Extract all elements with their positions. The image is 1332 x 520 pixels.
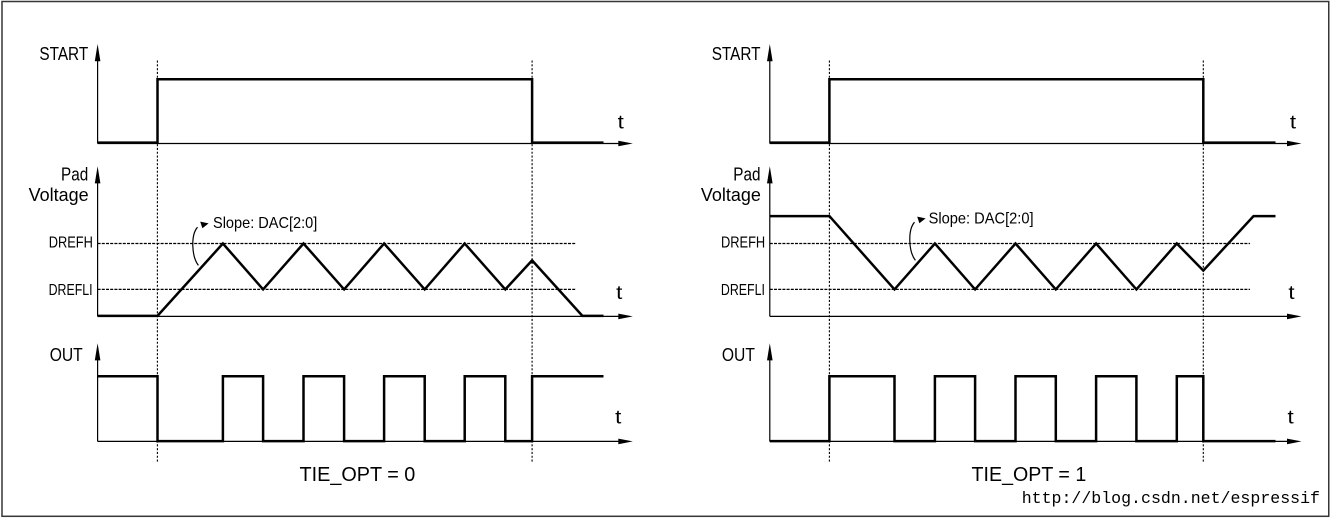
svg-text:t: t xyxy=(618,112,625,133)
dashed timing line T1 left xyxy=(156,61,158,463)
svg-text:t: t xyxy=(1288,408,1295,429)
dashed timing line T2 right xyxy=(1202,61,1204,463)
svg-text:START: START xyxy=(39,44,88,64)
svg-text:http://blog.csdn.net/espressif: http://blog.csdn.net/espressif xyxy=(1022,489,1320,508)
START waveform right xyxy=(770,79,1276,142)
Pad Voltage waveform right xyxy=(770,216,1276,289)
START vertical axis right xyxy=(767,44,773,144)
svg-text:t: t xyxy=(615,408,622,429)
svg-text:Voltage: Voltage xyxy=(701,185,761,205)
START time axis left xyxy=(98,141,633,147)
Pad Voltage vertical axis right xyxy=(767,166,773,316)
svg-text:OUT: OUT xyxy=(722,345,755,365)
OUT waveform right xyxy=(770,376,1276,441)
annotation curved arrow right xyxy=(910,217,926,261)
Pad Voltage vertical axis left xyxy=(95,166,101,316)
svg-text:t: t xyxy=(1288,283,1295,304)
OUT waveform left xyxy=(98,376,604,441)
svg-text:OUT: OUT xyxy=(50,345,83,365)
svg-text:TIE_OPT = 1: TIE_OPT = 1 xyxy=(972,464,1087,486)
svg-text:DREFH: DREFH xyxy=(721,234,765,251)
START time axis right xyxy=(770,141,1302,147)
OUT vertical axis right xyxy=(767,343,773,441)
svg-text:Pad: Pad xyxy=(61,165,88,185)
svg-text:DREFLI: DREFLI xyxy=(721,282,765,299)
dashed timing line T2 left xyxy=(531,61,533,463)
dashed timing line T1 right xyxy=(828,61,830,463)
svg-text:TIE_OPT = 0: TIE_OPT = 0 xyxy=(300,464,416,486)
START waveform left xyxy=(98,79,604,142)
DREFL threshold dashed line right xyxy=(770,288,1250,290)
svg-text:START: START xyxy=(712,44,761,64)
svg-text:Slope: DAC[2:0]: Slope: DAC[2:0] xyxy=(929,211,1034,228)
svg-text:Slope: DAC[2:0]: Slope: DAC[2:0] xyxy=(213,215,317,232)
Pad Voltage waveform left xyxy=(98,244,604,316)
Pad Voltage time axis left xyxy=(98,314,633,320)
OUT time axis left xyxy=(98,439,633,445)
Pad Voltage time axis right xyxy=(770,314,1302,320)
svg-text:DREFLI: DREFLI xyxy=(49,282,93,299)
svg-text:t: t xyxy=(616,283,623,304)
DREFH threshold dashed line left xyxy=(98,243,577,245)
svg-text:Pad: Pad xyxy=(733,165,760,185)
DREFL threshold dashed line left xyxy=(98,288,577,290)
svg-text:Voltage: Voltage xyxy=(29,185,89,205)
OUT vertical axis left xyxy=(95,343,101,441)
DREFH threshold dashed line right xyxy=(770,243,1250,245)
OUT time axis right xyxy=(770,439,1302,445)
svg-text:DREFH: DREFH xyxy=(49,234,93,251)
START vertical axis left xyxy=(95,44,101,144)
annotation curved arrow left xyxy=(193,222,209,266)
svg-text:t: t xyxy=(1290,112,1297,133)
